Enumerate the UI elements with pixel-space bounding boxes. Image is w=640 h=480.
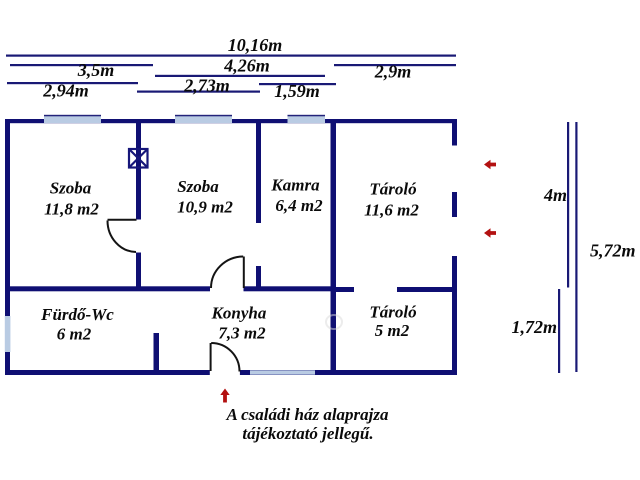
svg-text:Szoba: Szoba bbox=[177, 177, 219, 196]
svg-text:Fürdő-Wc: Fürdő-Wc bbox=[40, 305, 114, 324]
svg-text:2,73m: 2,73m bbox=[183, 76, 230, 96]
svg-text:Konyha: Konyha bbox=[211, 304, 267, 323]
door D2 Szoba 10,9 to Konyha leaf and arc bbox=[211, 257, 244, 289]
wall outer left bbox=[5, 119, 10, 375]
svg-text:4,26m: 4,26m bbox=[223, 56, 270, 76]
window W5 bottom wall kitchen bbox=[250, 370, 315, 374]
svg-text:4m: 4m bbox=[543, 185, 567, 205]
window W3 top wall bbox=[288, 116, 326, 124]
window W4 left wall bathroom bbox=[5, 316, 11, 352]
dim line 3,5m bbox=[10, 64, 153, 66]
wall outer bottom segment left bbox=[5, 370, 210, 375]
svg-text:Szoba: Szoba bbox=[50, 179, 92, 198]
wall interior 2 lower stub bbox=[256, 266, 261, 289]
svg-text:Kamra: Kamra bbox=[270, 176, 320, 195]
svg-text:5 m2: 5 m2 bbox=[375, 321, 410, 340]
svg-text:tájékoztató jellegű.: tájékoztató jellegű. bbox=[242, 424, 373, 443]
dim line 10,16m overall top bbox=[6, 55, 456, 57]
wall divider horizontal left segment bbox=[10, 286, 210, 291]
wall divider horizontal middle segment bbox=[244, 286, 331, 291]
svg-text:3,5m: 3,5m bbox=[77, 60, 115, 80]
dim line 2,73m bbox=[137, 91, 260, 93]
chimney symbol on wall 1 bbox=[129, 149, 148, 168]
red arrow 1 at right wall upper opening bbox=[484, 160, 496, 169]
watermark faint bbox=[326, 315, 342, 329]
svg-text:1,72m: 1,72m bbox=[511, 317, 557, 337]
svg-text:2,9m: 2,9m bbox=[374, 62, 412, 82]
wall interior 1 lower segment bbox=[136, 253, 141, 289]
door D1 Szoba 11,8 leaf and arc bbox=[108, 220, 137, 252]
wall interior 3 between Kamra/Konyha and Tarolo full height bbox=[331, 121, 337, 372]
dim line 5,72m vertical right bbox=[575, 122, 577, 372]
wall outer right segment 1 bbox=[452, 119, 457, 146]
svg-text:11,8 m2: 11,8 m2 bbox=[44, 200, 99, 219]
svg-text:7,3 m2: 7,3 m2 bbox=[218, 324, 266, 343]
svg-text:A családi ház alaprajza: A családi ház alaprajza bbox=[225, 405, 389, 424]
dim line 4m vertical right bbox=[567, 122, 569, 288]
wall outer bottom segment right bbox=[240, 370, 457, 375]
svg-text:1,59m: 1,59m bbox=[274, 81, 320, 101]
wall divider horizontal tarolo left stub bbox=[336, 287, 354, 292]
window W2 top wall bbox=[175, 116, 232, 124]
dim line 1,59m bbox=[259, 83, 336, 85]
dim line 4,26m bbox=[155, 75, 325, 77]
svg-text:11,6 m2: 11,6 m2 bbox=[364, 201, 419, 220]
wall interior 2 between Szoba 10,9 and Kamra upper segment bbox=[256, 121, 261, 223]
svg-text:5,72m: 5,72m bbox=[590, 241, 636, 261]
svg-text:2,94m: 2,94m bbox=[42, 81, 89, 101]
wall interior 1 between Szoba 11,8 and Szoba 10,9 upper segment bbox=[136, 121, 141, 220]
dim line 2,94m bbox=[7, 82, 138, 84]
svg-text:10,16m: 10,16m bbox=[228, 35, 283, 55]
door D3 Konyha exterior leaf and arc bbox=[211, 343, 240, 372]
window W1 top wall bbox=[44, 116, 101, 124]
wall divider horizontal tarolo right segment bbox=[397, 287, 452, 292]
wall outer top bbox=[5, 119, 457, 123]
svg-text:6 m2: 6 m2 bbox=[57, 325, 92, 344]
red arrow 3 at kitchen door bottom bbox=[220, 389, 229, 403]
svg-text:6,4 m2: 6,4 m2 bbox=[275, 196, 323, 215]
red arrow 2 at right wall lower opening bbox=[484, 228, 496, 237]
svg-text:Tároló: Tároló bbox=[369, 180, 416, 199]
wall interior 4 between Furdo-Wc and Konyha bbox=[154, 333, 160, 371]
dim line 1,72m vertical right bbox=[558, 289, 560, 373]
svg-text:Tároló: Tároló bbox=[369, 303, 416, 322]
wall outer right segment 2 bbox=[452, 192, 457, 217]
svg-text:10,9 m2: 10,9 m2 bbox=[177, 198, 233, 217]
dim line 2,9m bbox=[334, 64, 456, 66]
wall outer right segment 3 bbox=[452, 256, 457, 375]
